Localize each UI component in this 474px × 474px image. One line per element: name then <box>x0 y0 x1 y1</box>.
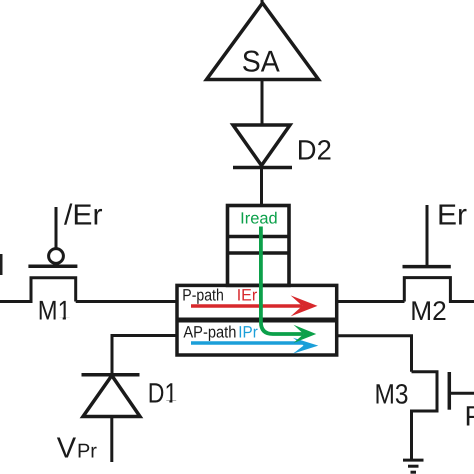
diode D1 <box>83 376 140 417</box>
diode D1 cathode bar <box>82 373 140 377</box>
blue current arrow IPr head <box>293 338 318 354</box>
MTJ stack layer line 2 <box>228 251 290 255</box>
svg-text:P-path: P-path <box>182 287 224 305</box>
P-path / AP-path box <box>177 285 337 355</box>
transistor M2 gate wire <box>426 205 429 267</box>
wire AP-path box left to D1 <box>112 336 177 375</box>
wire D2 to MTJ stack <box>260 168 263 207</box>
transistor M1 channel <box>0 278 76 302</box>
transistor M3 gate bar <box>448 372 452 410</box>
red current arrow IEr head <box>291 295 318 316</box>
diode D2 cathode bar <box>233 166 292 170</box>
divider line between P-path and AP-path <box>177 318 337 323</box>
wire P-path box right to M2 <box>337 300 405 303</box>
wire SA output to top edge <box>261 0 264 6</box>
transistor M2 channel <box>404 278 474 302</box>
wire D1 to VPr <box>110 417 113 463</box>
transistor M3 gate wire <box>449 392 474 395</box>
diode D2 <box>233 125 290 166</box>
transistor M1 gate bubble <box>49 249 64 264</box>
transistor M2 gate bar <box>403 265 451 269</box>
wire P-path box left to M1 <box>76 300 177 303</box>
transistor M1 gate bar <box>28 264 77 268</box>
svg-text:D2: D2 <box>297 135 332 166</box>
transistor M1 gate wire <box>55 207 58 249</box>
svg-text:M3: M3 <box>375 379 409 410</box>
MTJ stack outline <box>228 206 290 286</box>
cropped letter fragment at left edge <box>0 254 3 275</box>
svg-text:Er: Er <box>437 200 467 232</box>
svg-text:IPr: IPr <box>238 324 258 342</box>
green Iread current arrow head <box>294 325 317 343</box>
transistor M3 channel <box>412 372 438 460</box>
op-amp SA (sense amplifier triangle) <box>207 3 319 80</box>
svg-text:SA: SA <box>242 45 280 78</box>
red current arrow IEr shaft <box>191 304 302 308</box>
MTJ stack layer line 1 <box>228 235 290 239</box>
svg-text:M2: M2 <box>410 296 447 326</box>
svg-text:AP-path: AP-path <box>183 324 236 342</box>
svg-text:M1: M1 <box>38 296 71 326</box>
svg-text:/Er: /Er <box>64 200 103 232</box>
green Iread current curve <box>261 227 304 335</box>
wire SA to D2 <box>261 80 264 126</box>
ground symbol <box>403 460 424 472</box>
svg-text:Iread: Iread <box>240 210 277 228</box>
svg-text:IEr: IEr <box>237 287 258 305</box>
wire AP-path box right to M3 <box>337 336 412 372</box>
blue current arrow IPr shaft <box>191 341 302 345</box>
svg-text:Pr: Pr <box>465 401 474 432</box>
